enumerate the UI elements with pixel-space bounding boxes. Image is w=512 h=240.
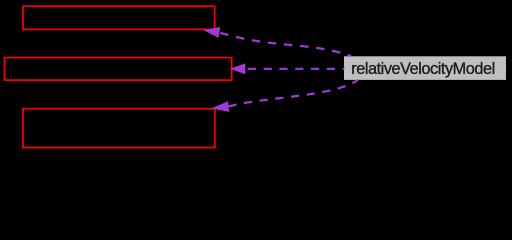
node box2 (middle red class box) [5, 58, 232, 81]
node box1 (top red class box) [23, 6, 215, 29]
edge 3: relativeVelocityModel to box3 (dashed usage arrow) [228, 80, 358, 107]
label relativeVelocityModel [351, 60, 495, 78]
arrowhead edge2 [231, 64, 245, 73]
node box3 (bottom red class box) [23, 109, 215, 148]
edge 2: relativeVelocityModel to box2 (dashed usage arrow) [245, 68, 345, 70]
edge 1: relativeVelocityModel to box1 (dashed usage arrow) [219, 32, 351, 56]
arrowhead edge3 [213, 102, 228, 112]
arrowhead edge1 [205, 28, 220, 37]
node relativeVelocityModel (grey filled box) [344, 56, 506, 80]
svg-text:relativeVelocityModel: relativeVelocityModel [351, 60, 495, 78]
